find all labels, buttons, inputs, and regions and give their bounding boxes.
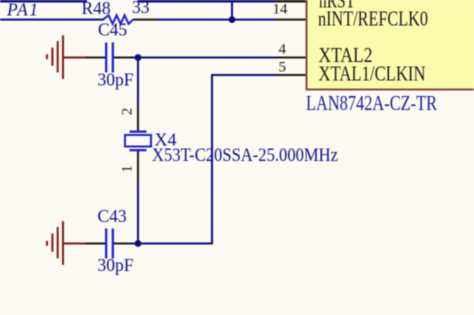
- wire junction down to crystal: [137, 58, 139, 104]
- crystal X4 bottom plate: [130, 149, 147, 151]
- wire R48 to junction: [155, 19, 276, 21]
- wire top nRST net (right segment): [138, 0, 277, 3]
- svg-text:PA1: PA1: [6, 0, 38, 20]
- crystal X4 top plate: [130, 131, 147, 133]
- wire C45 to XTAL2 pin: [133, 57, 276, 59]
- pin 4 stub: [276, 57, 306, 59]
- resistor R48 zigzag: [103, 15, 133, 24]
- capacitor C45 plates: [105, 43, 114, 73]
- crystal pin 2 stub: [137, 103, 139, 131]
- pin 5 stub: [276, 74, 306, 76]
- svg-text:LAN8742A-CZ-TR: LAN8742A-CZ-TR: [306, 91, 437, 115]
- wire PA1 to R48: [0, 19, 104, 21]
- crystal X4 body: [125, 135, 151, 147]
- svg-text:30pF: 30pF: [98, 70, 134, 90]
- wire vertical from top net to junction: [231, 1, 233, 20]
- svg-text:30pF: 30pF: [98, 255, 134, 275]
- junction at C43: [135, 240, 142, 247]
- svg-text:R48: R48: [82, 0, 111, 18]
- resistor R48 right pin: [133, 19, 155, 21]
- svg-text:C43: C43: [98, 206, 127, 226]
- capacitor C43 plates: [105, 229, 114, 259]
- capacitor C45 right pin: [114, 57, 133, 59]
- svg-text:nINT/REFCLK0: nINT/REFCLK0: [318, 6, 428, 30]
- wire crystal pin1 down to junction: [137, 185, 139, 244]
- wire vertical riser to XTAL1: [211, 75, 213, 245]
- wire top nRST net (left segment): [0, 0, 87, 3]
- svg-text:5: 5: [279, 59, 287, 75]
- svg-text:33: 33: [132, 0, 150, 17]
- pin 14 stub: [276, 19, 306, 21]
- wire C43 junction to vertical riser: [133, 243, 213, 245]
- junction below C45: [135, 54, 142, 61]
- ground GND top: [46, 35, 85, 79]
- capacitor C43 right pin: [114, 243, 133, 245]
- pin nRST stub: [276, 0, 306, 3]
- svg-text:14: 14: [273, 1, 289, 17]
- capacitor C43 left pin: [85, 243, 105, 245]
- wire riser to XTAL1/CLKIN pin: [211, 74, 276, 76]
- capacitor C45 left pin: [85, 57, 105, 59]
- svg-text:2: 2: [120, 108, 136, 116]
- ground GND bottom: [46, 221, 85, 265]
- IC U1 LAN8742A body: [307, 0, 474, 90]
- svg-text:4: 4: [279, 41, 287, 57]
- junction at R48 wire: [229, 16, 236, 23]
- svg-text:XTAL1/CLKIN: XTAL1/CLKIN: [319, 62, 426, 86]
- crystal pin 1 stub: [137, 151, 139, 185]
- svg-text:1: 1: [120, 165, 136, 173]
- svg-text:X53T-C20SSA-25.000MHz: X53T-C20SSA-25.000MHz: [152, 146, 338, 166]
- svg-text:C45: C45: [98, 20, 127, 40]
